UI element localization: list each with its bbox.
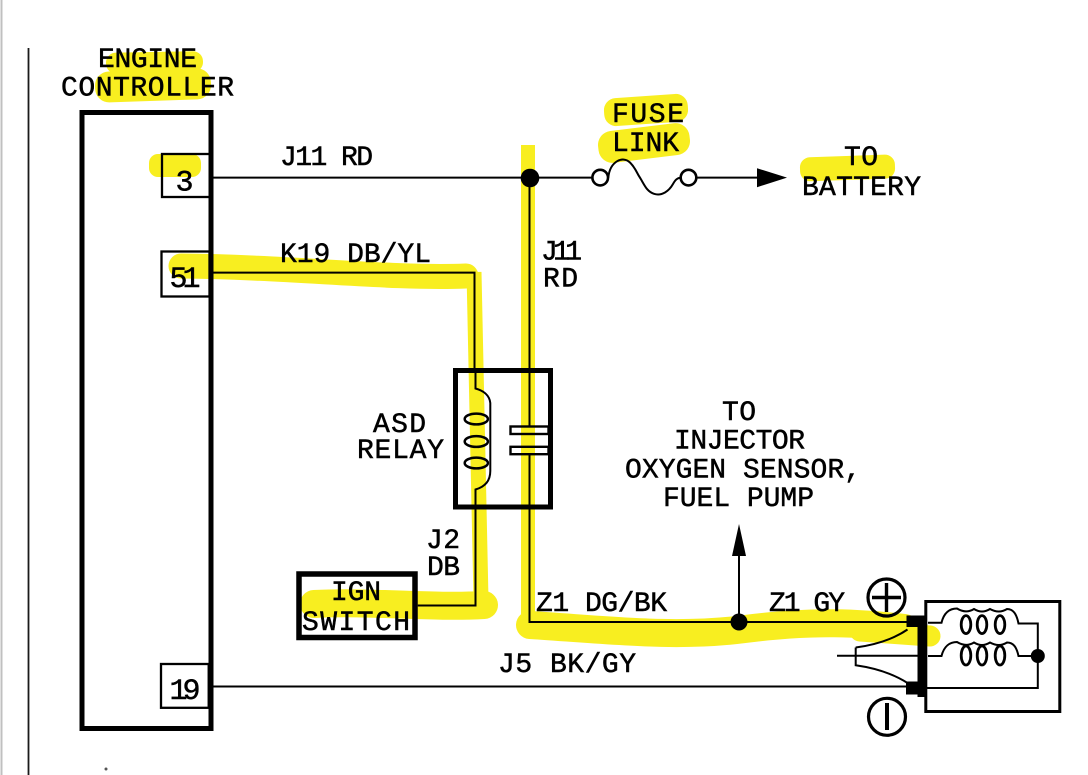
pin 19 box <box>161 664 209 708</box>
svg-text:INJECTOR: INJECTOR <box>674 427 805 458</box>
ignition coil terminal top square <box>907 616 926 628</box>
ignition coil primary loop 1 <box>961 616 971 634</box>
ignition coil connector stub <box>837 655 918 657</box>
wire J5 BK/GY pin19 to coil <box>209 686 906 688</box>
highlight over Z1 DG/BK wire <box>530 623 905 633</box>
highlight over LINK label <box>596 122 691 165</box>
svg-text:DB: DB <box>427 553 460 584</box>
pin 3 box <box>162 154 210 197</box>
ignition coil terminal bar <box>918 616 926 697</box>
highlight vertical K19/J2 wire <box>474 272 481 600</box>
wire Z1 DG/BK relay contact down and right <box>530 454 908 623</box>
ignition coil primary loop 2 <box>977 616 987 634</box>
arrow to injector <box>732 524 746 556</box>
node junction Z1 <box>731 614 748 631</box>
pin 51 box <box>162 252 210 297</box>
fuse link terminal circle left <box>592 170 608 186</box>
wire fuse to battery arrow <box>697 177 760 179</box>
highlight over ENGINE label <box>106 51 203 74</box>
ignition coil primary loop 3 <box>995 616 1005 634</box>
relay coil loop 1 <box>465 414 488 425</box>
relay contact bar bottom <box>511 447 549 454</box>
fuse link element <box>608 160 680 195</box>
node junction J11 <box>521 169 540 188</box>
highlight over IGN switch / J2 wire <box>314 603 484 606</box>
highlight over K19 DB/YL wire <box>181 266 466 276</box>
engine controller U1 box <box>82 113 211 729</box>
svg-text:19: 19 <box>170 675 201 709</box>
wire arrow stem to injector <box>738 554 740 622</box>
svg-text:RELAY: RELAY <box>357 436 444 467</box>
ign switch box <box>299 574 415 638</box>
svg-text:RD: RD <box>543 265 578 296</box>
ignition coil secondary loop 2 <box>977 646 987 665</box>
ignition coil secondary loop 3 <box>995 646 1005 665</box>
relay coil loop 3 <box>465 458 488 469</box>
ignition coil primary winding wire <box>926 609 1038 689</box>
highlight over J11 vertical wire <box>521 145 535 618</box>
ignition coil tower funnel <box>856 630 908 684</box>
highlight over pin 3 <box>149 154 201 177</box>
fuse link terminal circle right <box>681 170 697 186</box>
highlight over CONTROLLER label <box>95 68 212 103</box>
svg-text:FUEL PUMP: FUEL PUMP <box>663 484 814 515</box>
highlight over TO BATTERY label <box>800 154 896 181</box>
ignition coil box <box>926 602 1060 712</box>
wire J2 DB relay to ign switch <box>418 509 476 606</box>
page edge gray line <box>1 0 3 775</box>
battery negative symbol <box>869 698 906 735</box>
highlight over FUSE label <box>603 93 689 127</box>
wire K19 DB/YL pin51 to relay <box>210 273 475 369</box>
battery positive symbol <box>868 579 905 616</box>
svg-text:TO: TO <box>722 398 756 429</box>
svg-text:J11 RD: J11 RD <box>280 143 373 174</box>
relay K1 box <box>456 371 551 508</box>
relay coil loop 2 <box>465 436 488 447</box>
highlight over Z1 GY wire end <box>860 631 930 636</box>
ignition coil terminal bottom square <box>906 682 925 695</box>
relay contact bar top <box>511 427 549 435</box>
node coil secondary junction <box>1031 649 1045 663</box>
svg-text:OXYGEN SENSOR,: OXYGEN SENSOR, <box>625 456 861 487</box>
ignition coil secondary winding wire <box>928 642 1032 656</box>
svg-text:J5 BK/GY: J5 BK/GY <box>498 650 636 681</box>
left border line <box>28 48 30 775</box>
wire J11 RD vertical to relay contact <box>529 178 531 427</box>
arrow to battery <box>757 168 787 187</box>
stray dot bottom left <box>105 768 108 771</box>
wire J11 RD pin3 to fuse <box>211 177 593 179</box>
ignition coil secondary loop 1 <box>961 646 971 665</box>
relay coil wire <box>476 368 491 511</box>
